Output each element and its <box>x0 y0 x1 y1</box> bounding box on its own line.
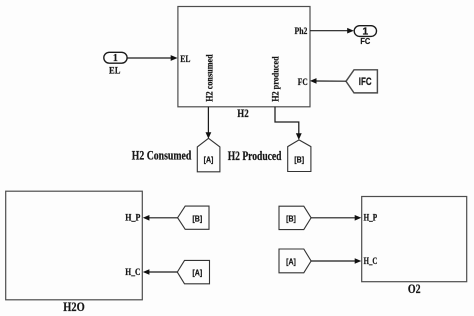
svg-text:H_C: H_C <box>364 256 378 266</box>
arrowhead into O2 H_P <box>355 215 362 221</box>
wire H2 consumed down <box>207 107 209 133</box>
wire B to H_P <box>149 217 178 219</box>
block O2 <box>362 197 467 282</box>
wire A to O2 H_C <box>311 260 356 262</box>
svg-text:H_P: H_P <box>364 213 378 223</box>
from tag A (to O2) <box>279 249 311 273</box>
wire B to O2 H_P <box>311 217 356 219</box>
svg-text:[A]: [A] <box>192 268 202 278</box>
arrowhead into O2 H_C <box>355 258 362 264</box>
arrowhead into H_P <box>143 215 150 221</box>
svg-text:EL: EL <box>180 55 190 65</box>
svg-text:[B]: [B] <box>286 213 296 223</box>
from tag B (to H2O) <box>178 206 209 229</box>
svg-text:[A]: [A] <box>286 256 296 266</box>
svg-text:H2 produced: H2 produced <box>272 56 282 102</box>
svg-text:H2O: H2O <box>63 299 85 314</box>
svg-text:EL: EL <box>109 67 120 77</box>
inport EL oval <box>104 52 127 63</box>
arrowhead into H_C <box>143 269 150 275</box>
from tag IFC <box>346 70 377 93</box>
svg-text:H2 Produced: H2 Produced <box>228 148 282 163</box>
wire IFC to FC port <box>316 80 347 82</box>
svg-text:H2 Consumed: H2 Consumed <box>132 148 192 163</box>
svg-text:1: 1 <box>113 53 118 64</box>
arrowhead into outport oval <box>347 28 354 34</box>
arrowhead into FC port <box>310 78 317 84</box>
goto tag B <box>288 140 311 172</box>
from tag B (to O2) <box>279 206 311 229</box>
svg-text:[B]: [B] <box>294 155 304 165</box>
svg-text:H2: H2 <box>237 108 249 120</box>
block H2O <box>6 191 143 300</box>
svg-text:H2 consumed: H2 consumed <box>206 54 216 102</box>
from tag A (to H2O) <box>177 260 209 283</box>
arrowhead into goto A <box>206 132 212 139</box>
outport FC oval <box>354 26 376 37</box>
wire Ph2 to outport <box>310 30 348 32</box>
arrowhead into goto B <box>296 133 302 140</box>
svg-text:H_P: H_P <box>125 213 140 223</box>
svg-text:FC: FC <box>360 36 370 46</box>
svg-text:O2: O2 <box>408 281 421 296</box>
svg-text:Ph2: Ph2 <box>295 27 308 37</box>
wire H2 produced down-right <box>275 107 299 134</box>
svg-text:[A]: [A] <box>204 155 214 165</box>
arrowhead into EL port <box>171 55 178 61</box>
svg-text:FC: FC <box>298 78 308 88</box>
svg-text:[B]: [B] <box>192 213 202 223</box>
wire EL to H2 <box>127 57 171 59</box>
block H2 <box>178 7 310 107</box>
wire A to H_C <box>149 271 178 273</box>
svg-text:IFC: IFC <box>359 76 372 88</box>
goto tag A <box>197 138 220 172</box>
svg-text:H_C: H_C <box>125 267 140 277</box>
